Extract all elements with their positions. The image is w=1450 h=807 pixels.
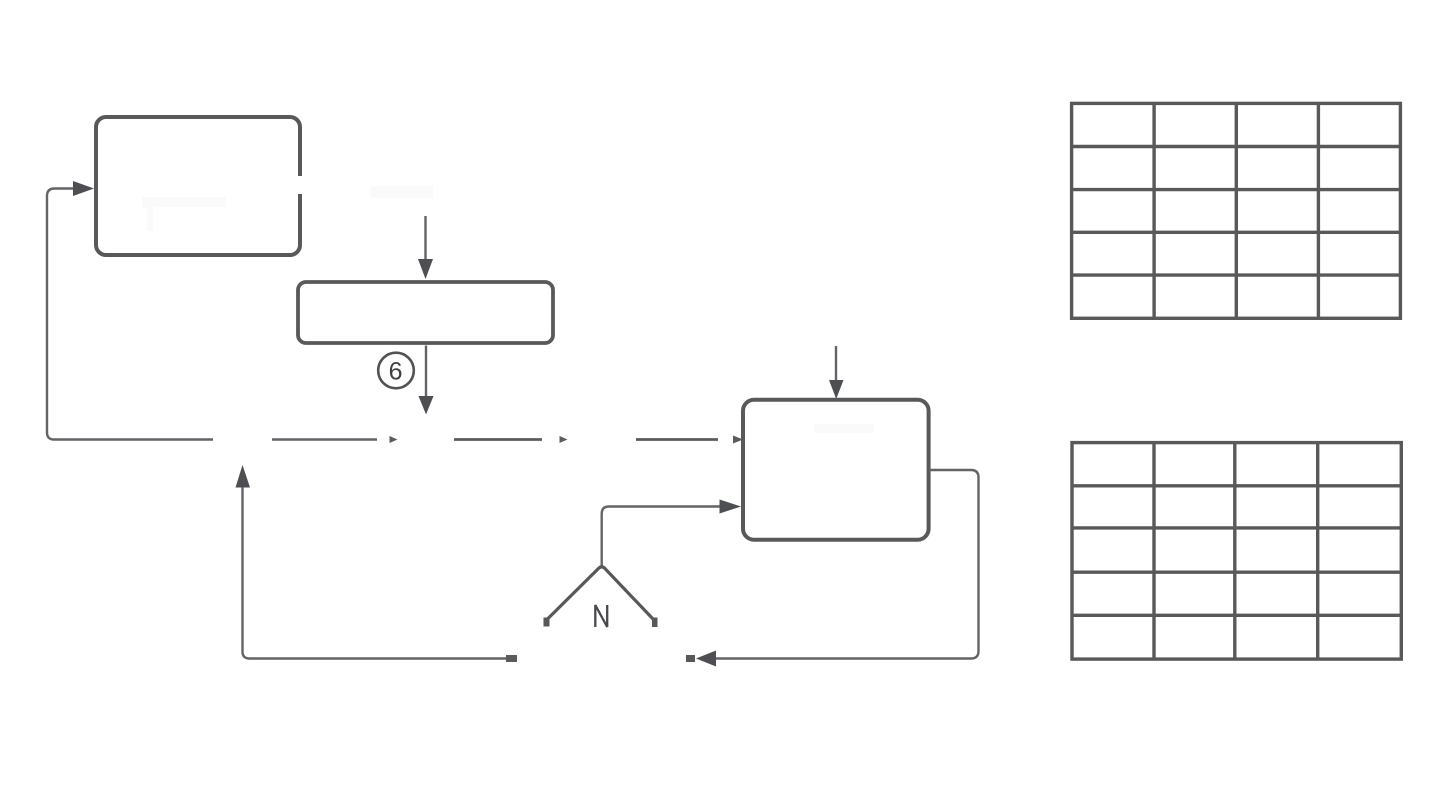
table2 grid 4x5 (bottom-right) — [1072, 443, 1401, 659]
faded arrowhead remnant 2 — [560, 436, 568, 443]
wire from branch apex into box3 left — [602, 500, 741, 567]
wire feeder loop into box1 (left vertical + top horizontal) — [47, 189, 213, 440]
circled number 6 label — [378, 353, 414, 389]
faded arrowhead remnant 1 — [390, 436, 398, 443]
box3 process (middle-right rounded rectangle) — [743, 400, 929, 540]
faint text above box2 — [370, 186, 433, 198]
box2 process (wide short rounded rectangle) — [298, 282, 553, 343]
branch legs (inverted V of faded decision) — [544, 567, 658, 627]
wire arrow down into box3 top — [829, 346, 844, 399]
wire arrow down into box2 — [418, 216, 433, 279]
faded horizontal wire segments at y=439 — [272, 438, 718, 440]
wire bottom-left return with up arrow — [236, 465, 518, 662]
arrowhead into box1 left — [73, 181, 94, 196]
faded arrowhead remnant 3 at box3 left — [733, 436, 743, 444]
box1 process (top-left rounded rectangle) — [96, 117, 304, 255]
label N — [595, 605, 607, 627]
table1 grid 4x5 (top-right) — [1072, 103, 1401, 318]
wire return path from box3 right, down and left — [686, 470, 979, 667]
wire arrow down from box2 — [419, 346, 434, 415]
